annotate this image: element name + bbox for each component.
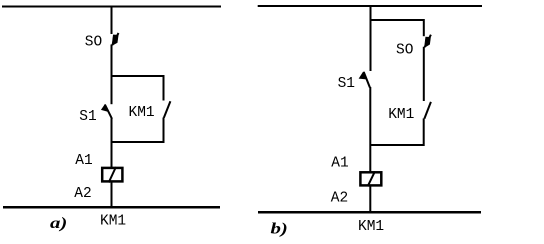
wire from rail to S0 (a) bbox=[111, 7, 113, 35]
coil diagonal (a) bbox=[109, 167, 116, 183]
svg-text:KM1: KM1 bbox=[358, 219, 384, 235]
wire branch bottom (b) bbox=[370, 144, 423, 146]
wire branch top (a) bbox=[112, 75, 164, 77]
wire S1 to coil (b) bbox=[369, 87, 371, 172]
svg-text:A1: A1 bbox=[331, 156, 348, 172]
wire branch top (b) bbox=[371, 19, 424, 21]
svg-text:KM1: KM1 bbox=[388, 107, 414, 123]
pushbutton S1 NO contact (a) bbox=[102, 105, 112, 119]
wire from rail to S1 (b) bbox=[370, 6, 372, 71]
svg-text:A1: A1 bbox=[75, 153, 92, 169]
pushbutton S0 NC contact (a) bbox=[112, 33, 119, 45]
pushbutton S1 NO contact (b) bbox=[359, 72, 370, 88]
wire bottom rail N (circuit b) bbox=[258, 211, 481, 214]
wire branch bottom (a) bbox=[112, 141, 165, 143]
svg-text:A2: A2 bbox=[74, 186, 91, 202]
wire coil to bottom rail (b) bbox=[369, 186, 371, 214]
wire S0 to S1 through branch node (a) bbox=[111, 45, 113, 105]
wire top rail L1 (circuit b) bbox=[258, 5, 482, 7]
contactor contact KM1 NO (a) bbox=[164, 101, 171, 117]
pushbutton S0 NC contact (b) bbox=[425, 35, 431, 48]
svg-text:KM1: KM1 bbox=[129, 105, 155, 121]
svg-text:S1: S1 bbox=[338, 76, 355, 92]
svg-text:a): a) bbox=[50, 214, 67, 232]
svg-text:A2: A2 bbox=[331, 190, 348, 206]
svg-text:KM1: KM1 bbox=[100, 214, 126, 230]
wire S1 to coil (a) bbox=[111, 118, 113, 167]
coil KM1 rectangle (b) bbox=[360, 172, 381, 185]
svg-text:SO: SO bbox=[396, 42, 413, 58]
wire branch right upper (a) bbox=[163, 75, 165, 101]
svg-text:S1: S1 bbox=[79, 109, 96, 125]
svg-text:SO: SO bbox=[85, 35, 102, 51]
wire branch to S0 (b) bbox=[423, 19, 425, 36]
svg-text:b): b) bbox=[271, 220, 288, 238]
wire branch right lower (a) bbox=[163, 118, 165, 144]
coil diagonal (b) bbox=[368, 171, 375, 186]
contactor contact KM1 NO (b) bbox=[424, 102, 431, 119]
coil KM1 rectangle (a) bbox=[102, 168, 122, 182]
wire S0 to KM1 contact (b) bbox=[423, 47, 425, 101]
wire KM1 contact to branch bottom (b) bbox=[423, 118, 425, 146]
wire coil to bottom rail (a) bbox=[111, 182, 113, 209]
wire top rail L1 (circuit a) bbox=[2, 6, 221, 8]
wire bottom rail N (circuit a) bbox=[3, 206, 220, 209]
